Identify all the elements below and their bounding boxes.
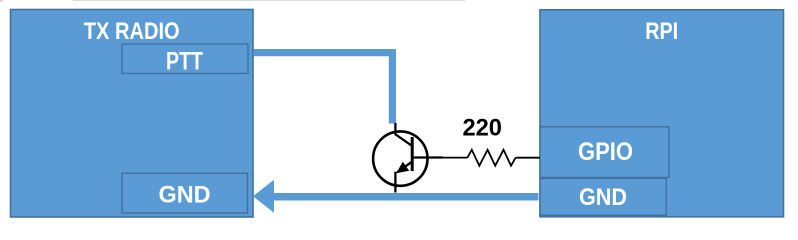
transistor Q1 base lead [412, 156, 443, 158]
svg-text:GND: GND [159, 182, 211, 209]
arrowhead into GND (left) [253, 180, 274, 213]
screenshot crop artifact line [73, 0, 465, 1]
svg-text:220: 220 [462, 115, 502, 142]
svg-text:GND: GND [579, 184, 627, 211]
block TX RADIO [11, 10, 254, 218]
svg-text:RPI: RPI [645, 18, 678, 45]
block RPI [540, 10, 784, 217]
transistor Q1 base bar [411, 137, 414, 171]
pin box GND (left) [122, 173, 248, 213]
resistor R1 lead right [516, 157, 540, 159]
svg-text:GPIO: GPIO [578, 138, 633, 166]
resistor R1 lead left [443, 157, 467, 159]
pin box PTT [122, 44, 248, 73]
transistor Q1 collector lead [395, 123, 411, 146]
screenshot crop artifact smudge [0, 0, 3, 2]
resistor R1 zigzag [467, 150, 515, 166]
svg-text:TX RADIO: TX RADIO [84, 18, 180, 45]
transistor Q1 emitter arrowhead [396, 162, 409, 174]
svg-text:PTT: PTT [166, 47, 203, 75]
wire RPI GND to TX RADIO GND (arrow connector) [272, 193, 539, 201]
pin box GND (right) [540, 178, 666, 215]
transistor Q1 emitter lead [395, 162, 411, 193]
transistor Q1 body circle [373, 131, 427, 185]
wire PTT to transistor collector (elbow connector) [254, 53, 393, 124]
pin box GPIO [540, 127, 669, 178]
